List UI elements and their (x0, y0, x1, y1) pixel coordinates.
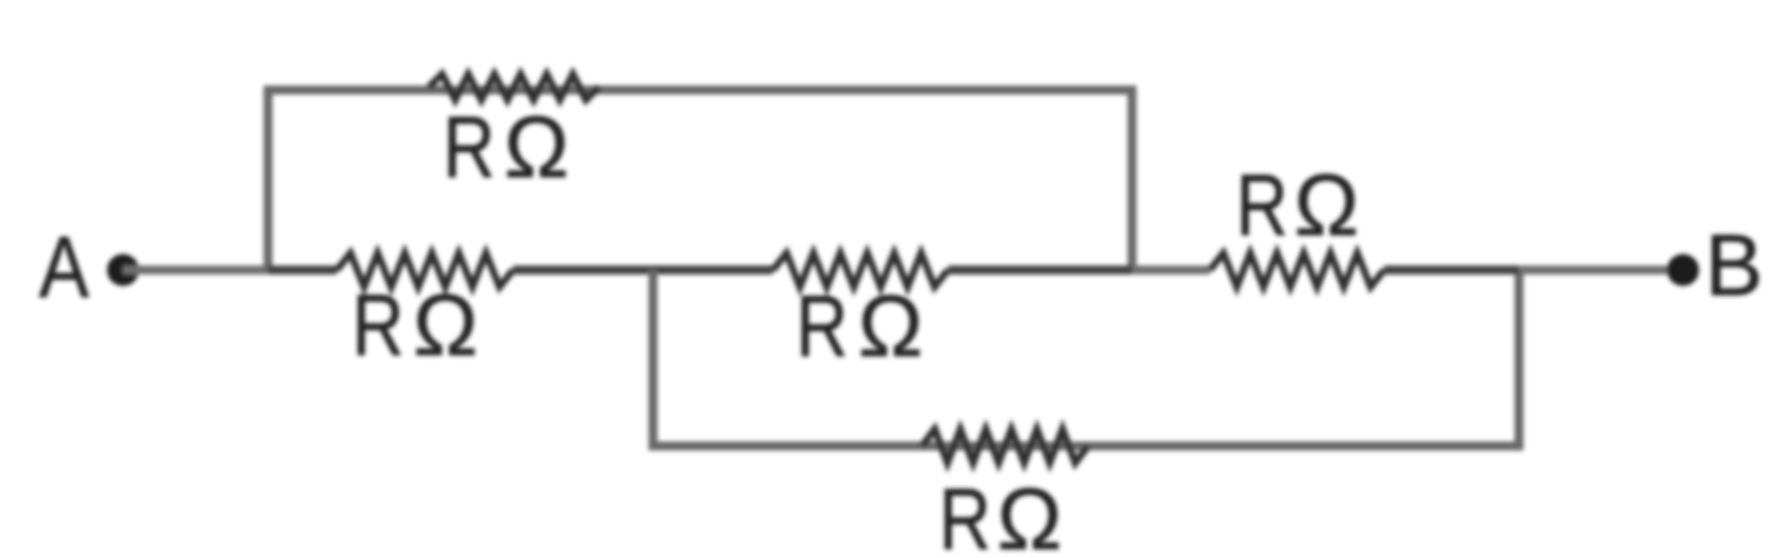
wire R4 to bottom-loop right junction (1384, 266, 1519, 275)
svg-text:R: R (443, 99, 495, 196)
svg-text:Ω: Ω (1294, 157, 1359, 254)
svg-text:Ω: Ω (997, 471, 1062, 558)
wire R2 to R3 (513, 266, 773, 275)
svg-text:R: R (939, 471, 991, 558)
wire R3 to top-loop right junction (948, 266, 1132, 275)
svg-text:R: R (1236, 157, 1288, 254)
svg-text:Ω: Ω (413, 277, 478, 374)
svg-text:Ω: Ω (858, 278, 923, 375)
terminal dot A (107, 254, 139, 286)
wire A to top-loop junction (123, 266, 272, 275)
resistor R2 on middle branch left (337, 253, 513, 287)
svg-text:A: A (39, 219, 89, 316)
svg-text:R: R (796, 278, 848, 375)
resistor R5 on bottom branch (922, 429, 1088, 463)
terminal dot B (1667, 254, 1699, 286)
resistor R1 on top branch (429, 74, 599, 100)
wire lead into R2 (268, 266, 337, 275)
resistor R3 on middle branch center (773, 253, 948, 287)
wire bottom-loop junction to B (1519, 266, 1683, 275)
svg-text:Ω: Ω (504, 99, 569, 196)
resistor R4 on middle branch right (1210, 253, 1384, 287)
top parallel loop wire (left vertical, top horizontal, right vertical) (268, 90, 1132, 270)
bottom parallel loop wire (left vertical, bottom horizontal, right vertical) (653, 270, 1519, 446)
svg-text:B: B (1705, 217, 1763, 314)
svg-text:R: R (352, 277, 404, 374)
wire top-loop junction to R4 (1132, 266, 1210, 275)
